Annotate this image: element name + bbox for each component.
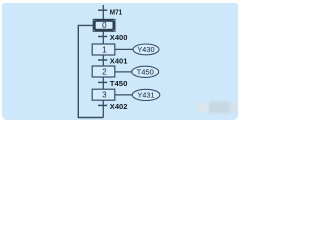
- blue panel background: [2, 3, 238, 120]
- svg-text:M71: M71: [110, 7, 123, 16]
- transition bar X402: [98, 104, 107, 106]
- svg-text:3: 3: [102, 91, 107, 100]
- coil T450: [132, 66, 159, 77]
- wire: step3 down: [102, 100, 104, 117]
- wire: step2 to step3: [102, 77, 104, 89]
- svg-text:Y431: Y431: [137, 90, 154, 99]
- step 3 box: [92, 89, 115, 100]
- coil Y431: [132, 89, 160, 100]
- transition bar T450: [98, 81, 107, 83]
- svg-text:X400: X400: [110, 33, 128, 42]
- wire: top spine into step 0: [102, 5, 104, 20]
- svg-text:X402: X402: [110, 102, 128, 111]
- svg-text:2: 2: [102, 67, 107, 76]
- wire: step2 to T450 coil: [115, 71, 132, 73]
- transition bar M71: [98, 9, 107, 11]
- step 1 box: [92, 44, 115, 55]
- svg-text:T450: T450: [137, 67, 154, 76]
- transition bar X401: [98, 59, 107, 61]
- step 2 box: [92, 66, 115, 77]
- initial step 0 (double box): [93, 19, 115, 31]
- transition bar X400: [98, 36, 107, 38]
- svg-text:1: 1: [102, 45, 107, 54]
- svg-text:X401: X401: [110, 56, 128, 65]
- watermark blob bottom right: [196, 102, 236, 114]
- wire: step0 to step1: [102, 31, 104, 44]
- wire: step1 to Y430 coil: [115, 48, 133, 50]
- coil Y430: [133, 44, 159, 55]
- wire: feedback loop bottom + left + into step0: [78, 25, 103, 117]
- wire: step1 to step2: [102, 55, 104, 66]
- svg-text:T450: T450: [110, 79, 128, 88]
- wire: step3 to Y431 coil: [115, 94, 132, 96]
- svg-text:0: 0: [102, 21, 107, 30]
- svg-text:Y430: Y430: [137, 45, 154, 54]
